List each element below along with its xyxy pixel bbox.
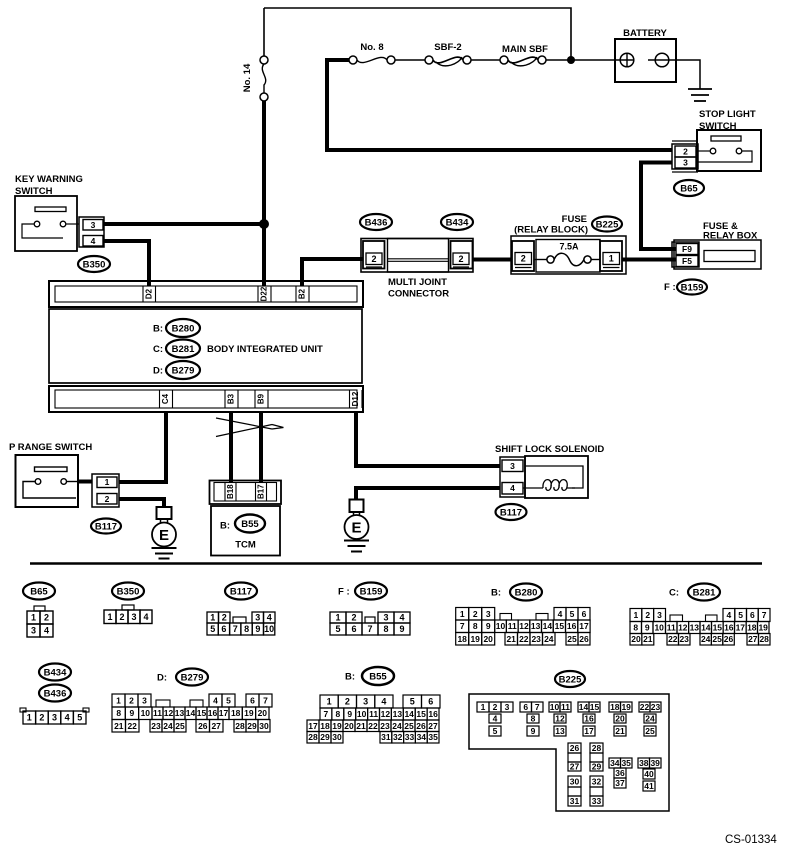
- svg-text:3: 3: [383, 613, 388, 623]
- svg-text:1: 1: [107, 612, 112, 622]
- fuse No. 14: [260, 56, 268, 101]
- svg-text:C:: C:: [669, 588, 679, 599]
- svg-text:16: 16: [567, 621, 577, 631]
- ground battery: [688, 89, 712, 101]
- svg-text:2: 2: [683, 147, 688, 157]
- svg-text:23: 23: [651, 702, 661, 712]
- svg-text:20: 20: [615, 714, 625, 724]
- svg-text:18: 18: [320, 721, 330, 731]
- ground E right: [344, 500, 369, 552]
- svg-text:D22: D22: [259, 286, 268, 301]
- svg-text:10: 10: [141, 708, 151, 718]
- svg-text:13: 13: [531, 621, 541, 631]
- svg-text:11: 11: [153, 708, 162, 718]
- svg-text:BATTERY: BATTERY: [623, 28, 667, 39]
- svg-text:25: 25: [404, 721, 414, 731]
- svg-text:7: 7: [762, 610, 767, 620]
- wire BIU B9 to TCM B17: [259, 411, 263, 482]
- connector B434/B436 pinout strip: [20, 708, 89, 724]
- svg-text:FUSE: FUSE: [562, 214, 587, 225]
- svg-text:17: 17: [308, 721, 318, 731]
- svg-text:B:: B:: [153, 324, 163, 335]
- svg-text:5: 5: [335, 624, 340, 634]
- wire relay block to F5: [622, 258, 676, 262]
- ground E left: [152, 507, 177, 559]
- svg-text:1: 1: [105, 477, 110, 487]
- connector label F:B159: [664, 280, 707, 295]
- svg-text:13: 13: [690, 623, 700, 633]
- TCM main box: [211, 506, 280, 556]
- svg-text:26: 26: [570, 743, 580, 753]
- svg-text:1: 1: [609, 254, 614, 264]
- svg-text:3: 3: [31, 626, 36, 636]
- svg-text:3: 3: [486, 609, 491, 619]
- wire thick bus from fuse No.8 corner down and across to stop light switch pin 2: [327, 60, 672, 150]
- connector B434 label: [39, 664, 71, 681]
- svg-text:B3: B3: [227, 393, 236, 404]
- fuse No. 8: [349, 42, 395, 64]
- svg-text:3: 3: [510, 461, 515, 471]
- svg-text:4: 4: [91, 236, 96, 246]
- svg-text:23: 23: [151, 721, 161, 731]
- svg-text:B350: B350: [83, 259, 106, 270]
- svg-text:B279: B279: [181, 672, 204, 683]
- junction node key warning / No.14: [259, 219, 269, 229]
- svg-text:8: 8: [473, 621, 478, 631]
- svg-text:5: 5: [738, 610, 743, 620]
- svg-text:1: 1: [460, 609, 465, 619]
- svg-text:13: 13: [393, 709, 403, 719]
- svg-text:5: 5: [210, 624, 215, 634]
- svg-text:25: 25: [567, 634, 577, 644]
- svg-text:3: 3: [657, 610, 662, 620]
- svg-text:1: 1: [210, 613, 215, 623]
- svg-text:6: 6: [523, 702, 528, 712]
- svg-text:28: 28: [308, 732, 318, 742]
- svg-text:27: 27: [570, 762, 580, 772]
- svg-text:P RANGE SWITCH: P RANGE SWITCH: [9, 442, 92, 453]
- svg-text:B281: B281: [693, 587, 716, 598]
- connector F:B159 pinout: [330, 583, 410, 636]
- svg-text:2: 2: [521, 254, 526, 264]
- svg-text:4: 4: [727, 610, 732, 620]
- crossover mark: [216, 418, 284, 437]
- wire stop light 3 down to F9: [641, 163, 676, 250]
- svg-text:B17: B17: [256, 484, 265, 499]
- connector label B225: [592, 217, 622, 232]
- svg-text:19: 19: [332, 721, 342, 731]
- svg-text:18: 18: [457, 634, 467, 644]
- svg-text:18: 18: [747, 623, 757, 633]
- svg-text:19: 19: [621, 702, 631, 712]
- svg-text:TCM: TCM: [235, 540, 256, 551]
- svg-text:9: 9: [347, 709, 352, 719]
- svg-text:B65: B65: [680, 183, 698, 194]
- separator line: [30, 562, 762, 565]
- svg-text:B117: B117: [95, 521, 117, 532]
- svg-text:26: 26: [724, 634, 734, 644]
- svg-text:3: 3: [683, 158, 688, 168]
- svg-text:31: 31: [381, 732, 391, 742]
- svg-text:15: 15: [713, 623, 723, 633]
- svg-text:11: 11: [508, 621, 517, 631]
- svg-text:25: 25: [712, 634, 722, 644]
- svg-text:13: 13: [555, 726, 565, 736]
- connector label B350: [78, 256, 110, 272]
- svg-text:27: 27: [748, 634, 758, 644]
- svg-text:(RELAY BLOCK): (RELAY BLOCK): [514, 225, 588, 236]
- svg-text:B159: B159: [360, 586, 383, 597]
- fuse SBF-2: [425, 42, 471, 66]
- svg-text:7: 7: [460, 621, 465, 631]
- wire: [395, 59, 425, 61]
- svg-text:25: 25: [645, 726, 655, 736]
- svg-text:5: 5: [570, 609, 575, 619]
- svg-text:CONNECTOR: CONNECTOR: [388, 289, 449, 300]
- svg-text:4: 4: [558, 609, 563, 619]
- svg-text:14: 14: [404, 709, 414, 719]
- svg-text:22: 22: [519, 634, 529, 644]
- svg-text:4: 4: [65, 713, 70, 723]
- svg-text:B280: B280: [172, 323, 195, 334]
- svg-text:8: 8: [336, 709, 341, 719]
- svg-text:23: 23: [531, 634, 541, 644]
- svg-text:3: 3: [142, 696, 147, 706]
- svg-text:6: 6: [351, 624, 356, 634]
- svg-text:25: 25: [175, 721, 185, 731]
- svg-text:36: 36: [615, 768, 625, 778]
- svg-text:24: 24: [163, 721, 173, 731]
- svg-text:9: 9: [255, 624, 260, 634]
- svg-text:35: 35: [428, 732, 438, 742]
- wire P range 2 to ground: [119, 499, 164, 508]
- wire MJC to fuse relay block: [473, 258, 512, 262]
- svg-text:B281: B281: [172, 344, 195, 355]
- stop light connector terminals 2,3: [672, 141, 698, 172]
- svg-text:B65: B65: [30, 586, 48, 597]
- svg-text:28: 28: [235, 721, 245, 731]
- svg-text:2: 2: [493, 702, 498, 712]
- svg-text:17: 17: [579, 621, 589, 631]
- body integrated unit top connector row: [49, 281, 363, 307]
- svg-text:8: 8: [244, 624, 249, 634]
- svg-text:CS-01334: CS-01334: [725, 834, 777, 846]
- svg-text:F5: F5: [682, 256, 692, 266]
- svg-text:SHIFT LOCK SOLENOID: SHIFT LOCK SOLENOID: [495, 444, 604, 455]
- svg-text:16: 16: [208, 708, 218, 718]
- svg-text:No. 14: No. 14: [242, 63, 253, 92]
- svg-text:B225: B225: [559, 674, 582, 685]
- svg-text:B:: B:: [345, 672, 355, 683]
- svg-text:SBF-2: SBF-2: [434, 42, 461, 53]
- svg-text:4: 4: [267, 613, 272, 623]
- TCM connector row B18,B17: [210, 481, 282, 505]
- svg-text:38: 38: [639, 758, 649, 768]
- connector label B65: [674, 180, 704, 196]
- svg-text:12: 12: [519, 621, 529, 631]
- svg-text:5: 5: [77, 713, 82, 723]
- svg-text:7.5A: 7.5A: [559, 242, 579, 252]
- svg-text:6: 6: [582, 609, 587, 619]
- svg-text:19: 19: [470, 634, 480, 644]
- svg-text:STOP LIGHT: STOP LIGHT: [699, 109, 756, 120]
- svg-text:9: 9: [645, 623, 650, 633]
- svg-text:19: 19: [758, 623, 768, 633]
- svg-text:29: 29: [592, 762, 602, 772]
- svg-text:B9: B9: [257, 393, 266, 404]
- svg-text:21: 21: [615, 726, 625, 736]
- svg-text:18: 18: [231, 708, 241, 718]
- wire to battery: [546, 59, 620, 61]
- svg-text:2: 2: [458, 254, 463, 264]
- svg-text:34: 34: [417, 732, 427, 742]
- svg-text:F :: F :: [664, 282, 676, 293]
- svg-text:B18: B18: [226, 484, 235, 499]
- svg-text:16: 16: [724, 623, 734, 633]
- svg-text:8: 8: [633, 623, 638, 633]
- wire No.14 fuse down to D22: [262, 101, 266, 286]
- svg-text:28: 28: [592, 743, 602, 753]
- svg-text:B434: B434: [44, 667, 67, 678]
- svg-text:31: 31: [570, 796, 580, 806]
- connector B117 pinout: [207, 583, 275, 636]
- connector B350 pinout: [104, 583, 152, 624]
- svg-text:B:: B:: [220, 521, 230, 532]
- svg-text:32: 32: [393, 732, 403, 742]
- svg-text:6: 6: [750, 610, 755, 620]
- svg-text:B55: B55: [369, 671, 387, 682]
- svg-text:B2: B2: [297, 288, 306, 299]
- svg-text:23: 23: [679, 634, 689, 644]
- svg-text:40: 40: [644, 769, 654, 779]
- svg-text:14: 14: [543, 621, 553, 631]
- svg-text:17: 17: [219, 708, 229, 718]
- svg-text:19: 19: [244, 708, 254, 718]
- key warning switch: [15, 174, 83, 251]
- svg-text:2: 2: [351, 613, 356, 623]
- wire BIU B3 to TCM B18: [229, 411, 233, 482]
- svg-text:2: 2: [345, 697, 350, 707]
- svg-text:B436: B436: [365, 217, 388, 228]
- svg-text:3: 3: [52, 713, 57, 723]
- connector label B117 solenoid: [496, 504, 527, 520]
- svg-text:15: 15: [197, 708, 207, 718]
- svg-text:22: 22: [640, 702, 650, 712]
- svg-text:2: 2: [119, 612, 124, 622]
- svg-text:D2: D2: [144, 288, 153, 299]
- svg-text:30: 30: [259, 721, 269, 731]
- shift lock solenoid: [495, 444, 604, 498]
- connector B350 terminals: [79, 217, 104, 247]
- svg-text:21: 21: [114, 721, 124, 731]
- svg-text:24: 24: [544, 634, 554, 644]
- svg-text:B:: B:: [491, 588, 501, 599]
- svg-text:6: 6: [428, 697, 433, 707]
- svg-text:2: 2: [645, 610, 650, 620]
- svg-text:7: 7: [324, 709, 329, 719]
- P range switch: [9, 442, 92, 507]
- svg-text:3: 3: [255, 613, 260, 623]
- svg-text:4: 4: [510, 483, 515, 493]
- svg-text:34: 34: [610, 758, 620, 768]
- battery: [615, 28, 700, 89]
- svg-text:15: 15: [590, 702, 600, 712]
- svg-text:29: 29: [320, 732, 330, 742]
- wire: [471, 59, 500, 61]
- svg-text:8: 8: [383, 624, 388, 634]
- svg-text:12: 12: [555, 714, 565, 724]
- svg-text:14: 14: [186, 708, 196, 718]
- connector label B434: [441, 214, 473, 230]
- svg-text:7: 7: [535, 702, 540, 712]
- wire BIU D12 to solenoid 3: [356, 411, 500, 466]
- svg-text:20: 20: [344, 721, 354, 731]
- svg-text:28: 28: [759, 634, 769, 644]
- svg-text:MULTI JOINT: MULTI JOINT: [388, 277, 447, 288]
- wire BIU B2 up to multi joint connector: [302, 259, 363, 286]
- connector B436 label: [39, 685, 71, 702]
- svg-text:4: 4: [44, 626, 49, 636]
- svg-text:8: 8: [531, 714, 536, 724]
- svg-text:29: 29: [247, 721, 257, 731]
- svg-text:D:: D:: [153, 366, 163, 377]
- svg-text:2: 2: [371, 254, 376, 264]
- svg-text:12: 12: [678, 623, 688, 633]
- svg-text:1: 1: [31, 613, 36, 623]
- svg-text:6: 6: [221, 624, 226, 634]
- svg-text:8: 8: [116, 708, 121, 718]
- wire key warning 4 to BIU D2: [104, 241, 149, 286]
- svg-text:C:: C:: [153, 344, 163, 355]
- svg-text:10: 10: [654, 623, 664, 633]
- wire key warning 3 to junction: [104, 222, 264, 226]
- svg-text:17: 17: [584, 726, 594, 736]
- svg-text:20: 20: [258, 708, 268, 718]
- svg-text:B159: B159: [681, 282, 704, 293]
- svg-text:9: 9: [486, 621, 491, 631]
- svg-text:7: 7: [233, 624, 238, 634]
- junction node battery feed: [567, 56, 575, 64]
- body integrated unit main box: [49, 309, 362, 383]
- svg-text:5: 5: [226, 696, 231, 706]
- svg-text:1: 1: [327, 697, 332, 707]
- svg-text:2: 2: [473, 609, 478, 619]
- P range connector terminals 1,2: [92, 474, 119, 507]
- svg-text:9: 9: [399, 624, 404, 634]
- svg-text:41: 41: [644, 781, 654, 791]
- svg-text:12: 12: [164, 708, 174, 718]
- svg-text:2: 2: [222, 613, 227, 623]
- svg-text:2: 2: [44, 613, 49, 623]
- svg-text:B117: B117: [500, 507, 522, 518]
- svg-text:14: 14: [579, 702, 589, 712]
- svg-text:26: 26: [579, 634, 589, 644]
- svg-text:4: 4: [213, 696, 218, 706]
- svg-text:4: 4: [143, 612, 148, 622]
- fuse MAIN SBF: [500, 44, 548, 66]
- svg-text:9: 9: [531, 726, 536, 736]
- connector C:B281 pinout: [630, 584, 770, 646]
- svg-text:B436: B436: [44, 688, 67, 699]
- svg-text:5: 5: [410, 697, 415, 707]
- svg-text:B280: B280: [515, 587, 538, 598]
- svg-text:16: 16: [584, 714, 594, 724]
- svg-text:24: 24: [392, 721, 402, 731]
- wire top feed from No.14 to battery node: [264, 8, 571, 61]
- connector D:B279 pinout: [112, 669, 272, 733]
- svg-text:B434: B434: [446, 217, 469, 228]
- connector B:B280 pinout: [456, 584, 590, 646]
- svg-text:10: 10: [496, 621, 506, 631]
- svg-text:4: 4: [381, 697, 386, 707]
- svg-text:B350: B350: [117, 586, 140, 597]
- svg-text:F :: F :: [338, 587, 350, 598]
- svg-text:BODY INTEGRATED UNIT: BODY INTEGRATED UNIT: [207, 344, 323, 355]
- connector B225 pinout: [469, 671, 669, 811]
- svg-text:5: 5: [493, 726, 498, 736]
- connector label B117: [91, 519, 121, 534]
- svg-text:33: 33: [405, 732, 415, 742]
- svg-text:37: 37: [615, 778, 625, 788]
- svg-text:18: 18: [610, 702, 620, 712]
- body integrated unit bottom connector row: [49, 386, 363, 412]
- svg-text:3: 3: [505, 702, 510, 712]
- svg-text:15: 15: [555, 621, 565, 631]
- svg-text:6: 6: [250, 696, 255, 706]
- svg-text:7: 7: [367, 624, 372, 634]
- svg-text:F9: F9: [682, 244, 692, 254]
- svg-text:4: 4: [399, 613, 404, 623]
- multi joint connector: [361, 239, 473, 300]
- svg-text:21: 21: [356, 721, 366, 731]
- svg-text:C4: C4: [161, 393, 170, 404]
- wire solenoid 4 to ground: [356, 488, 500, 500]
- svg-text:35: 35: [621, 758, 631, 768]
- svg-text:26: 26: [198, 721, 208, 731]
- svg-text:1: 1: [116, 696, 121, 706]
- svg-text:39: 39: [650, 758, 660, 768]
- svg-text:7: 7: [263, 696, 268, 706]
- drawing number CS-01334: [725, 834, 777, 846]
- svg-text:2: 2: [39, 713, 44, 723]
- svg-text:1: 1: [27, 713, 32, 723]
- svg-text:E: E: [159, 527, 169, 544]
- svg-text:24: 24: [645, 714, 655, 724]
- svg-text:B225: B225: [596, 219, 619, 230]
- svg-text:26: 26: [416, 721, 426, 731]
- connector label B436: [360, 214, 392, 230]
- svg-text:23: 23: [380, 721, 390, 731]
- svg-text:24: 24: [701, 634, 711, 644]
- svg-text:32: 32: [592, 777, 602, 787]
- fuse & relay box: [672, 221, 761, 269]
- svg-text:21: 21: [643, 634, 653, 644]
- svg-text:9: 9: [130, 708, 135, 718]
- svg-text:17: 17: [736, 623, 746, 633]
- connector B65 pinout: [23, 583, 55, 638]
- svg-text:33: 33: [592, 796, 602, 806]
- svg-text:22: 22: [127, 721, 137, 731]
- svg-text:27: 27: [428, 721, 438, 731]
- svg-text:B279: B279: [172, 365, 195, 376]
- svg-text:MAIN SBF: MAIN SBF: [502, 44, 548, 55]
- svg-text:3: 3: [131, 612, 136, 622]
- svg-text:11: 11: [667, 623, 676, 633]
- svg-text:14: 14: [701, 623, 711, 633]
- svg-text:E: E: [351, 520, 361, 537]
- svg-text:13: 13: [175, 708, 185, 718]
- svg-text:10: 10: [264, 624, 274, 634]
